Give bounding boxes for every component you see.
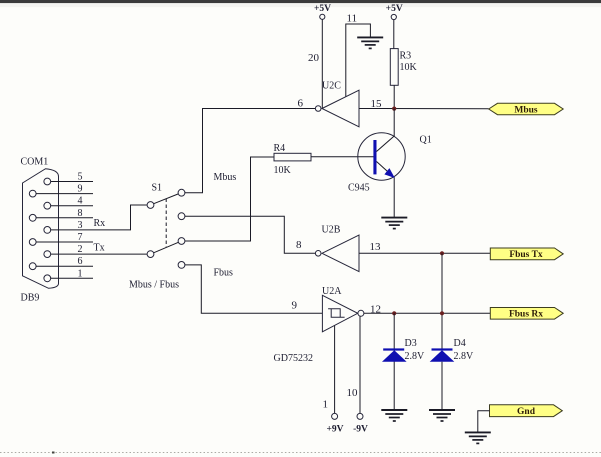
switch S1 arm 1 <box>154 194 179 204</box>
svg-text:S1: S1 <box>152 183 163 194</box>
svg-text:2: 2 <box>78 244 83 255</box>
svg-text:COM1: COM1 <box>21 157 49 168</box>
DB9 pin 4 <box>44 196 93 209</box>
junction dot at D4 node <box>440 311 444 315</box>
pin label 11 <box>347 13 358 25</box>
switch S1 linkage dashed <box>165 199 167 248</box>
zener diode D4 <box>430 348 455 361</box>
svg-text:15: 15 <box>371 98 383 110</box>
ground at Q1 emitter <box>381 218 407 229</box>
value 10K <box>400 62 418 73</box>
svg-text:U2A: U2A <box>322 286 342 297</box>
pin label 10 <box>347 387 359 399</box>
svg-text:10K: 10K <box>400 62 418 73</box>
svg-text:D3: D3 <box>405 338 417 349</box>
wire U2B pin 13 to Fbus Tx tag <box>359 252 490 254</box>
svg-text:U2C: U2C <box>322 81 341 92</box>
svg-text:+5V: +5V <box>386 4 403 14</box>
power +5V port over U2C pin 20 <box>314 4 331 20</box>
switch S1 throw 1 <box>178 189 185 196</box>
pin label 15 <box>371 98 383 110</box>
zener diode D3 <box>382 348 407 361</box>
wire Gnd tag to ground <box>478 411 490 432</box>
svg-text:12: 12 <box>370 303 381 315</box>
label D3 <box>405 338 417 349</box>
port tag Fbus Rx <box>490 308 563 320</box>
svg-text:Mbus: Mbus <box>514 106 538 116</box>
power port -9V <box>353 413 368 434</box>
wire throw3 to R4 left <box>185 157 274 241</box>
svg-text:3: 3 <box>78 220 83 231</box>
pin label 8 <box>296 239 302 251</box>
wire Tx from pin2 to switch pole 2 <box>51 253 147 255</box>
wire node Fbus: throw4 to U2A pin 9 <box>185 265 323 313</box>
port tag Gnd <box>490 405 563 417</box>
value 2.8V <box>454 351 475 362</box>
svg-text:9: 9 <box>292 299 298 311</box>
svg-text:C945: C945 <box>348 183 370 194</box>
svg-text:2.8V: 2.8V <box>454 351 475 362</box>
bottom sheet dotted border <box>0 452 601 454</box>
svg-text:7: 7 <box>78 232 83 243</box>
wire U2A pin 12 output to Fbus Rx tag <box>364 312 490 314</box>
svg-text:6: 6 <box>298 98 304 110</box>
pin label 9 <box>292 299 298 311</box>
ground at D3 <box>381 410 407 421</box>
junction dot at R3/Q1/U2C node <box>392 107 396 111</box>
switch S1 label <box>152 183 163 194</box>
wire R3 bottom to node <box>393 85 395 108</box>
svg-text:U2B: U2B <box>322 225 341 236</box>
port tag Fbus Tx <box>490 248 563 260</box>
ground at pin 11 <box>357 37 383 48</box>
resistor R4 <box>274 153 311 161</box>
label R4 <box>274 143 286 154</box>
svg-text:10K: 10K <box>274 165 292 176</box>
wire D4 to ground <box>441 362 443 409</box>
junction dot Fbus Tx bus <box>440 251 444 255</box>
wire +5V to U2C (pin 20) <box>321 19 323 108</box>
svg-text:11: 11 <box>347 13 358 25</box>
svg-text:R3: R3 <box>400 51 412 62</box>
svg-text:DB9: DB9 <box>21 293 40 304</box>
wire U2A pin 1 to +9V <box>334 326 336 414</box>
junction dot at D3 node <box>392 311 396 315</box>
wire +5V to R3 <box>393 20 395 49</box>
switch S1 pole 2 <box>147 251 154 258</box>
switch S1 arm 2 <box>154 242 179 253</box>
DB9 pin 2 <box>44 244 83 257</box>
svg-text:-9V: -9V <box>353 425 368 435</box>
DB9 pin 7 <box>29 232 93 245</box>
op-amp buffer U2B <box>315 235 359 272</box>
svg-text:20: 20 <box>308 52 320 64</box>
label C945 <box>348 183 370 194</box>
pin label 20 <box>308 52 320 64</box>
power port +9V <box>326 413 343 434</box>
svg-text:+9V: +9V <box>326 425 343 435</box>
DB9 pin 5 <box>44 172 93 185</box>
svg-text:+5V: +5V <box>314 4 331 14</box>
label U2A <box>322 286 342 297</box>
svg-text:9: 9 <box>78 184 83 195</box>
wire pin 11 to ground and into U2C <box>346 24 371 97</box>
wire node Mbus: throw1 to U2C input <box>185 109 316 193</box>
wire Rx from pin3 to switch pole 1 <box>51 205 147 230</box>
value 10K <box>274 165 292 176</box>
wire throw2 to U2B pin 8 <box>185 216 316 253</box>
svg-text:D4: D4 <box>454 338 466 349</box>
svg-text:1: 1 <box>323 399 329 411</box>
label DB9 <box>21 293 40 304</box>
pin label 12 <box>370 303 381 315</box>
svg-text:Tx: Tx <box>94 243 105 254</box>
DB9 pin 8 <box>29 208 93 221</box>
svg-text:Rx: Rx <box>94 218 106 229</box>
pin label 6 <box>298 98 304 110</box>
wire D3 branch down <box>393 313 395 409</box>
svg-text:GD75232: GD75232 <box>274 353 313 364</box>
svg-text:8: 8 <box>296 239 302 251</box>
wire vertical bus Fbus Tx to D4 <box>441 253 443 349</box>
svg-text:Fbus Tx: Fbus Tx <box>509 250 543 260</box>
transistor Q1 <box>358 109 405 218</box>
pin label 13 <box>370 241 382 253</box>
wire U2C pin 15 output to Mbus tag <box>359 108 489 110</box>
label Mbus net <box>214 172 237 183</box>
svg-text:Mbus: Mbus <box>214 172 237 183</box>
connector COM1 DB9 outline <box>23 169 59 289</box>
switch S1 throw 4 <box>178 262 185 269</box>
svg-text:4: 4 <box>78 196 83 207</box>
svg-text:6: 6 <box>78 256 83 267</box>
label R3 <box>400 51 412 62</box>
power +5V port over R3 <box>386 4 403 20</box>
svg-text:Fbus Rx: Fbus Rx <box>509 310 543 320</box>
value 2.8V <box>405 351 426 362</box>
switch S1 pole 1 <box>147 202 154 209</box>
DB9 pin 9 <box>29 184 93 197</box>
top window edge bar <box>0 0 601 7</box>
port tag Mbus <box>489 103 564 115</box>
svg-text:2.8V: 2.8V <box>405 351 426 362</box>
DB9 pin 1 <box>44 268 93 281</box>
svg-text:Mbus / Fbus: Mbus / Fbus <box>129 280 179 291</box>
ground at D4 <box>429 410 455 421</box>
op-amp buffer U2A <box>322 295 364 332</box>
DB9 pin 6 <box>29 256 93 269</box>
svg-text:Gnd: Gnd <box>517 407 536 417</box>
label U2B <box>322 225 341 236</box>
svg-text:13: 13 <box>370 241 382 253</box>
ground at Gnd tag <box>465 432 491 443</box>
pin label 1 <box>323 399 329 411</box>
svg-text:5: 5 <box>78 172 83 183</box>
label U2C <box>322 81 341 92</box>
svg-text:R4: R4 <box>274 143 286 154</box>
svg-text:10: 10 <box>347 387 359 399</box>
op-amp buffer U2C <box>315 90 359 127</box>
label GD75232 <box>274 353 313 364</box>
label D4 <box>454 338 466 349</box>
DB9 pin 3 <box>44 220 83 233</box>
label Mbus / Fbus <box>129 280 179 291</box>
svg-text:Q1: Q1 <box>420 135 432 146</box>
wire U2A pin 10 to -9V <box>359 316 361 413</box>
label Q1 <box>420 135 432 146</box>
resistor R3 <box>390 49 398 86</box>
svg-text:1: 1 <box>78 268 83 279</box>
svg-text:Fbus: Fbus <box>214 268 234 279</box>
label Tx <box>94 243 105 254</box>
label Fbus net <box>214 268 234 279</box>
svg-text:8: 8 <box>78 208 83 219</box>
label COM1 <box>21 157 49 168</box>
switch S1 throw 3 <box>178 238 185 245</box>
wire R4 to Q1 base <box>311 156 374 158</box>
label Rx <box>94 218 106 229</box>
switch S1 throw 2 <box>178 213 185 220</box>
